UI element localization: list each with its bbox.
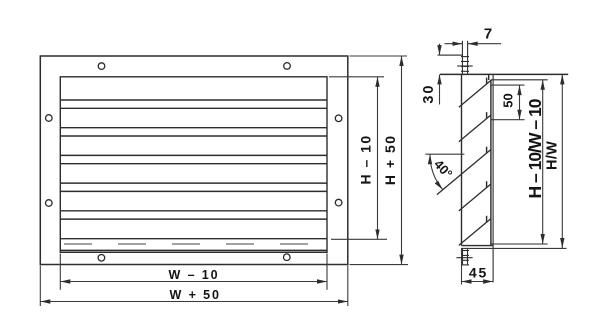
screw hole right-lower (335, 199, 342, 206)
inner face vertical (490, 80, 492, 246)
dimension 45 (462, 248, 494, 285)
svg-text:45: 45 (469, 264, 488, 280)
svg-text:7: 7 (484, 25, 492, 42)
louver blade 3 (section, extended for angle callout) (437, 150, 491, 195)
louver slat line 7 (60, 182, 327, 184)
dimension H-10 (329, 77, 387, 240)
screw hole left-upper (46, 115, 53, 122)
bottom fixing screw (456, 248, 472, 265)
screw hole bottom-left (98, 254, 105, 261)
screw hole left-lower (46, 200, 53, 207)
bottom rail double line (60, 249, 327, 251)
screw hole bottom-right (284, 254, 291, 261)
svg-text:50: 50 (501, 93, 516, 107)
body bottom line (462, 245, 494, 247)
louver blade 1 (section) (459, 80, 491, 107)
inner face lip notch (488, 74, 490, 80)
dimension H/W (561, 74, 563, 248)
louver blade 2 tip (486, 112, 488, 118)
louver blade 3 tip (486, 147, 488, 153)
louver slat line 9 (60, 210, 327, 212)
angle 40 degrees: arc with arrows (430, 154, 443, 190)
svg-text:H – 10: H – 10 (357, 134, 373, 184)
louver slat line 11 (60, 238, 327, 240)
louver slat line 1 (60, 99, 327, 101)
dimension W+50 (40, 266, 348, 307)
dimension 50 (491, 85, 525, 120)
svg-text:H + 50: H + 50 (382, 134, 398, 185)
svg-text:W – 10: W – 10 (169, 268, 220, 282)
section view: top surface line (440, 73, 568, 75)
section view: left face (461, 74, 463, 245)
dimension 30 (440, 44, 463, 105)
svg-text:W + 50: W + 50 (170, 288, 221, 302)
angle 40 degrees: horizontal reference line (425, 153, 464, 155)
louver slat line 5 (60, 154, 327, 156)
louver blade 4 tip (486, 181, 488, 187)
top fixing screw (457, 41, 473, 75)
outer bottom extension line (462, 247, 567, 249)
inner bottom surface extension (491, 243, 548, 245)
inner panel rectangle (60, 77, 327, 253)
outer frame of louver front view (40, 56, 348, 265)
screw hole right-upper (335, 115, 342, 122)
louver blade 2 (section) (459, 115, 491, 142)
section view: flange top extension line (438, 54, 464, 56)
screw hole top-right (284, 63, 291, 70)
hidden dashed line in bottom slat (64, 243, 325, 245)
louver blade 5 tip (486, 216, 488, 222)
svg-text:H – 10/W – 10: H – 10/W – 10 (525, 98, 545, 198)
dimension H+50 (350, 56, 409, 265)
louver slat line 3 (60, 127, 327, 129)
louver blade 5 (section) (459, 219, 491, 246)
screw hole top-left (98, 63, 105, 70)
svg-text:H/W: H/W (545, 141, 561, 170)
dimension 7 (445, 43, 502, 45)
dimension H-10/W-10 (542, 80, 544, 244)
louver blade 4 (section) (459, 184, 491, 211)
dimension W-10 (60, 254, 327, 290)
louver slat line 10 (60, 218, 327, 220)
louver slat line 6 (60, 163, 327, 165)
inner top surface extension (491, 79, 548, 81)
louver slat line 8 (60, 190, 327, 192)
inner face / depth extension vertical (492, 74, 494, 282)
svg-text:30: 30 (421, 84, 437, 104)
louver blade 1 tip (486, 78, 488, 84)
louver slat line 4 (60, 135, 327, 137)
louver slat line 2 (60, 107, 327, 109)
